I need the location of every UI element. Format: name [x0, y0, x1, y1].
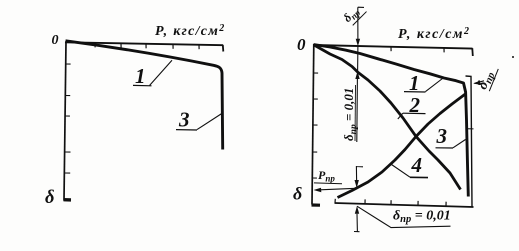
label 3 underline [436, 147, 454, 149]
rotated dimension text delta-pr = 0,01 [341, 88, 359, 141]
right axis end hook [471, 48, 474, 56]
svg-text:δпр = 0,01: δпр = 0,01 [341, 88, 359, 141]
svg-text:0: 0 [52, 33, 59, 48]
mid dimension up arrow (to curve 1) [355, 71, 359, 79]
right v-axis ticks [312, 73, 318, 178]
stray dot [512, 56, 514, 58]
label 1 leader [150, 60, 173, 85]
bracket tick [468, 128, 474, 130]
svg-text:1: 1 [135, 64, 146, 88]
label 1 underline [404, 91, 426, 93]
right h-axis ticks [391, 47, 444, 53]
rotated text underline [354, 85, 357, 141]
label 3 underline [176, 129, 197, 131]
bottom dimension line lower part [354, 214, 360, 232]
bottom dimension up arrow (to bottom line) [355, 206, 359, 214]
svg-text:3: 3 [436, 124, 448, 148]
label 2 leader [398, 113, 403, 119]
label 3 leader [453, 140, 466, 148]
svg-text:Рпр: Рпр [318, 168, 335, 184]
curve 2 right [314, 45, 461, 190]
left horizontal axis [65, 42, 223, 45]
right bracket (dimension line, right edge) [466, 76, 473, 207]
P-pr arrow [317, 188, 356, 190]
svg-text:Р, кгс/см2: Р, кгс/см2 [155, 23, 226, 39]
bottom line left hook [334, 199, 336, 203]
bottom reference line [335, 203, 474, 207]
left vertical axis [64, 42, 66, 201]
bottom dimension line upper part [356, 166, 363, 180]
curve 1 right (bends into curve 3 vertical drop) [314, 45, 469, 197]
left h-axis ticks [95, 43, 199, 49]
right vertical axis [312, 44, 314, 205]
top dimension down arrow [356, 39, 360, 47]
label 1 underline [133, 84, 152, 86]
right bracket arrow [475, 81, 485, 84]
left v-axis ticks [65, 64, 71, 173]
right axis foot [312, 203, 321, 206]
right rotated label delta-pr [474, 63, 499, 92]
label 4 underline [410, 176, 428, 178]
bottom dimension down arrow (to curve 4) [355, 180, 359, 188]
svg-text:δ: δ [45, 188, 54, 208]
P-pr underline [314, 182, 342, 185]
label 2 underline [403, 112, 426, 114]
svg-text:3: 3 [178, 108, 190, 132]
bottom line ticks [365, 199, 446, 206]
label 3 leader [197, 114, 222, 130]
top dimension line (delta-pr at P axis) [358, 7, 364, 39]
left axis end hook [222, 45, 225, 52]
svg-text:δ: δ [293, 184, 302, 204]
mid dimension line [357, 46, 358, 142]
svg-text:4: 4 [411, 153, 423, 177]
label 1 leader [426, 79, 443, 92]
svg-text:δпр = 0,01: δпр = 0,01 [393, 209, 451, 226]
bottom leader to text [357, 206, 451, 227]
left axis foot [64, 198, 72, 202]
svg-text:0: 0 [297, 35, 306, 54]
curve 4 right [338, 94, 467, 198]
top dimension label (rotated delta-pr) [340, 0, 366, 26]
label 4 leader [392, 165, 411, 178]
right horizontal axis [313, 45, 473, 49]
svg-text:Р, кгс/см2: Р, кгс/см2 [398, 26, 471, 42]
curve 1 left (with bend into vertical drop, curve 3) [66, 41, 223, 150]
